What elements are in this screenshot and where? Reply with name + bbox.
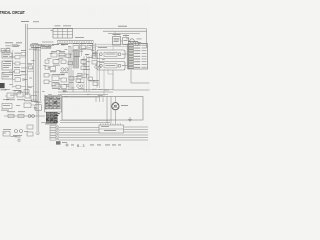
connector stack CN4 [50,125,58,140]
bottom wire bundle [59,128,149,141]
wire module drop [104,69,113,97]
misc label texts [2,39,142,138]
title ELECTRICAL CIRCUIT [0,9,25,15]
connector CN2 grid [127,44,147,70]
wire main bus [27,29,147,48]
left extra comps [15,90,29,94]
double line below box [60,120,110,122]
auxiliary relays left [21,50,33,69]
capacitor C1 [13,85,26,88]
fuse pair top [1,49,22,91]
solenoid SL1 [35,102,42,111]
main switch SW1 [21,21,39,95]
fuse box F1 [1,51,13,80]
sensor S1 [24,101,37,108]
resistor R1 [13,62,26,65]
relay K2 [13,75,25,81]
lamp L1 [60,68,68,73]
wire harness hatched cable [42,37,95,57]
regulator VR1 [73,51,79,69]
drop wires in box [107,97,111,124]
ground G1 [128,117,132,122]
wire links left [13,50,41,92]
pressure switch PS1 [77,74,82,80]
blower motor M3 [112,97,128,124]
wire bundle to right [58,90,113,98]
connector CN1 [51,26,73,38]
wires to right modules [96,44,127,50]
relay K1 [113,31,147,45]
center cluster B [52,74,67,89]
equipment box outline [62,97,143,121]
wire bundle center vertical [69,44,100,92]
wire bus 2 [103,31,147,33]
control labels row [52,43,93,49]
wire bundle left vertical [34,44,41,116]
wires module to grid [95,41,138,65]
junction dense rows [45,112,60,124]
dense check top-left [41,45,51,49]
ECU U1 [99,123,148,133]
terminal block TB1 [1,104,12,111]
module M1 [97,47,125,58]
harness junction cluster [45,96,62,113]
connector comb CN3 [96,97,103,103]
module M2 [97,62,125,71]
wire right lower [113,70,150,90]
bottom-left components [3,116,40,141]
left lower junction cluster [5,93,38,102]
top-left labels [5,43,42,48]
center cluster A [50,51,71,72]
svg-text:TRICAL CIRCUIT: TRICAL CIRCUIT [0,9,25,15]
label top right [118,25,127,28]
fuse link chain [4,112,45,118]
diode D1 [13,67,26,73]
footer page label [56,141,121,148]
extra center components [44,53,101,87]
battery BT1 [0,83,7,90]
wire right vertical [131,70,150,83]
ignition switch SW2 [12,53,21,59]
